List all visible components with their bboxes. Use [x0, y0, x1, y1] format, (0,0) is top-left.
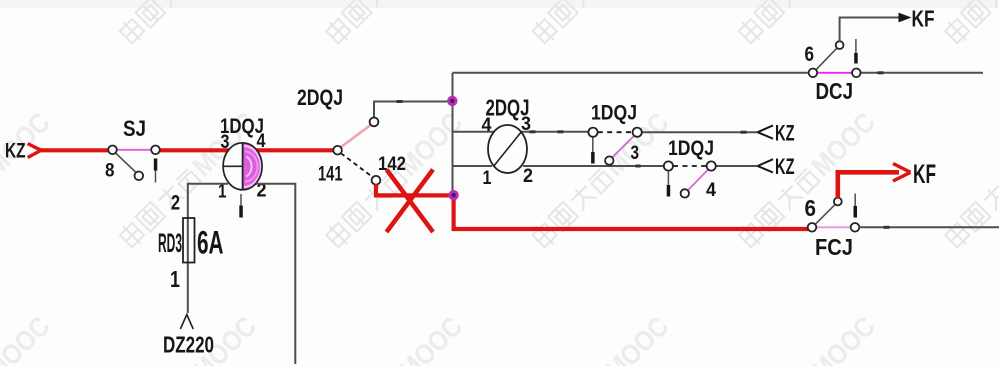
- wire: red FCJ to KF: [838, 172, 899, 198]
- fuse RD3 6A: [158, 192, 224, 293]
- node: junction dot lower: [448, 190, 458, 200]
- svg-text:RD3: RD3: [158, 228, 182, 258]
- svg-text:FCJ: FCJ: [815, 234, 853, 260]
- svg-text:6: 6: [805, 195, 817, 221]
- svg-text:4: 4: [706, 180, 716, 201]
- relay 1DQJ (coil, half filled): [218, 115, 267, 218]
- wire: 2DQJ top contact to bus: [374, 100, 453, 117]
- svg-text:2: 2: [171, 192, 180, 215]
- node KZ output upper: [758, 121, 795, 146]
- wire: 1DQJ pin1 to fuse: [188, 184, 228, 313]
- wire: red 142 route to FCJ: [376, 184, 808, 229]
- svg-text:4: 4: [257, 131, 266, 152]
- svg-text:1: 1: [483, 168, 492, 189]
- svg-text:DCJ: DCJ: [816, 78, 854, 104]
- contact DCJ (pin 6, closed): [805, 39, 861, 104]
- svg-text:SJ: SJ: [123, 116, 146, 141]
- svg-text:6A: 6A: [197, 225, 224, 261]
- node: junction dot upper: [447, 96, 457, 106]
- wire: vertical bus: [452, 73, 454, 196]
- contact 1DQJ front (pin 4, open): [664, 137, 717, 201]
- svg-text:3: 3: [521, 114, 531, 135]
- wire: lower row 2DQJ pin1-2 to second 1DQJ contact: [453, 165, 758, 168]
- mark: red X cancel: [387, 170, 434, 233]
- svg-text:1DQJ: 1DQJ: [591, 102, 637, 125]
- svg-text:KF: KF: [913, 159, 936, 189]
- node KF output top: [899, 6, 935, 32]
- node KF output lower (red arrow): [893, 159, 936, 189]
- power DZ220: [163, 315, 214, 358]
- wire: DCJ right continuation: [860, 71, 983, 74]
- contact FCJ (pin 6, closed): [805, 194, 860, 261]
- svg-text:3: 3: [221, 132, 230, 153]
- wire: 1DQJ pin2 drop: [256, 184, 295, 364]
- svg-text:KF: KF: [912, 6, 935, 32]
- node KZ output lower: [758, 154, 795, 179]
- wire: red main KZ line: [40, 148, 334, 152]
- svg-text:KZ: KZ: [775, 121, 795, 146]
- svg-text:142: 142: [378, 154, 406, 175]
- contact 1DQJ front (pin 3, open): [588, 102, 641, 165]
- wire: DCJ to KF output: [840, 18, 899, 42]
- node KZ feed arrow (left, red): [5, 140, 41, 163]
- wire: FCJ right continuation: [859, 226, 999, 229]
- svg-text:2DQJ: 2DQJ: [297, 85, 343, 110]
- svg-text:1: 1: [170, 266, 180, 292]
- svg-text:8: 8: [105, 161, 115, 182]
- contact SJ (closed, pin 8): [105, 116, 160, 183]
- svg-text:DZ220: DZ220: [163, 332, 214, 358]
- svg-text:4: 4: [482, 115, 492, 136]
- relay 2DQJ (coil with diagonal): [482, 95, 534, 190]
- contact 2DQJ changeover 141/142: [297, 85, 406, 186]
- svg-text:3: 3: [631, 143, 640, 164]
- svg-text:KZ: KZ: [5, 140, 26, 163]
- svg-text:141: 141: [318, 163, 343, 186]
- svg-text:2: 2: [523, 166, 533, 187]
- wire: top bus horizontal to DCJ: [453, 72, 809, 74]
- wire: row to 2DQJ pin4 and 1DQJ contact row: [453, 130, 758, 133]
- svg-text:1DQJ: 1DQJ: [668, 137, 714, 160]
- svg-text:KZ: KZ: [775, 154, 795, 179]
- svg-text:6: 6: [805, 43, 815, 66]
